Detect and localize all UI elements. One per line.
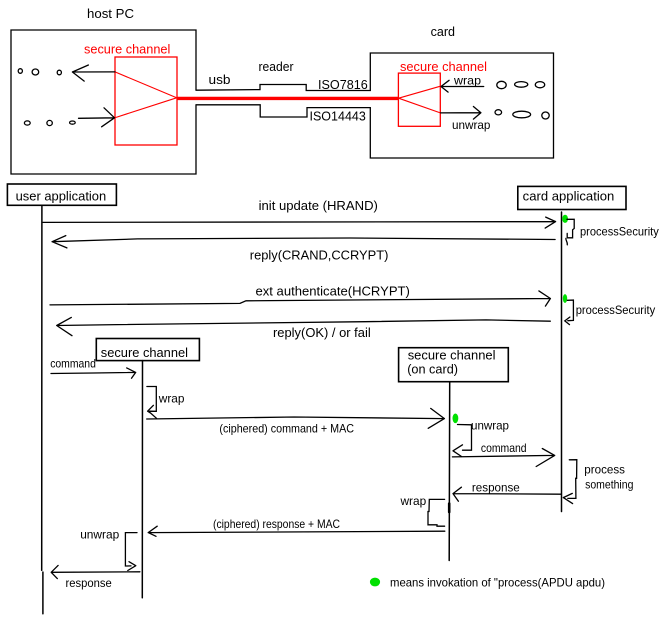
green dot processSecurity 1 bbox=[562, 215, 568, 223]
green dot processSecurity 2 bbox=[563, 294, 567, 303]
svg-text:secure channel: secure channel bbox=[101, 345, 188, 360]
user application box bbox=[7, 184, 116, 205]
arrow to host dots bbox=[72, 65, 115, 81]
svg-text:response: response bbox=[472, 481, 520, 495]
init update arrow bbox=[43, 217, 556, 228]
cable bottom line with reader notch bbox=[196, 105, 370, 117]
legend green dot bbox=[370, 578, 380, 587]
lifeline thick segment bbox=[448, 504, 451, 513]
svg-text:init update (HRAND): init update (HRAND) bbox=[259, 198, 378, 213]
ciphered response arrow bbox=[148, 526, 445, 536]
svg-text:card application: card application bbox=[523, 189, 615, 204]
process something bracket bbox=[563, 460, 577, 504]
dots card bottom row bbox=[495, 110, 502, 115]
unwrap self-call (left) bbox=[125, 533, 137, 571]
self-call bracket 2 bbox=[565, 300, 574, 325]
svg-text:process: process bbox=[584, 463, 625, 477]
svg-text:wrap: wrap bbox=[158, 392, 185, 406]
svg-text:(ciphered) response + MAC: (ciphered) response + MAC bbox=[213, 517, 340, 531]
reply(OK) arrow bbox=[57, 317, 551, 335]
dots host bottom row bbox=[24, 121, 30, 125]
svg-text:command: command bbox=[50, 357, 96, 371]
response arrow (card) bbox=[453, 487, 561, 501]
svg-text:processSecurity: processSecurity bbox=[580, 225, 659, 239]
svg-text:processSecurity: processSecurity bbox=[576, 303, 656, 317]
secure channel (on card) box bbox=[399, 348, 509, 382]
svg-text:secure channel: secure channel bbox=[400, 59, 487, 74]
svg-text:reader: reader bbox=[259, 59, 295, 74]
dots host top row bbox=[18, 69, 22, 74]
ext authenticate arrow bbox=[50, 291, 550, 306]
svg-text:ext authenticate(HCRYPT): ext authenticate(HCRYPT) bbox=[256, 284, 410, 299]
card box bbox=[370, 53, 553, 158]
command arrow (left) bbox=[51, 368, 136, 378]
svg-text:reply(CRAND,CCRYPT): reply(CRAND,CCRYPT) bbox=[250, 247, 389, 262]
wrap self-call (secure channel) bbox=[147, 387, 157, 419]
ciphered command arrow bbox=[147, 408, 445, 428]
svg-text:secure channel: secure channel bbox=[408, 348, 496, 363]
cable top line with reader bump bbox=[196, 85, 370, 91]
svg-text:wrap: wrap bbox=[453, 73, 481, 87]
svg-text:response: response bbox=[66, 576, 112, 590]
thick red channel line bbox=[177, 97, 399, 100]
svg-text:reply(OK) / or fail: reply(OK) / or fail bbox=[273, 325, 371, 340]
secure channel box (host, red) bbox=[115, 57, 177, 145]
self-call hook 1 bbox=[566, 219, 574, 245]
svg-text:(ciphered) command + MAC: (ciphered) command + MAC bbox=[219, 421, 354, 435]
svg-text:ISO7816: ISO7816 bbox=[318, 77, 368, 92]
secure channel box (seq) bbox=[96, 339, 199, 361]
wrap self-call (on card) bbox=[428, 499, 445, 526]
command arrow (to card app) bbox=[452, 449, 554, 467]
response arrow (left) bbox=[51, 565, 140, 578]
secure channel lifeline bbox=[141, 361, 143, 598]
wrap arrow (card) bbox=[441, 80, 484, 92]
svg-text:ISO14443: ISO14443 bbox=[310, 109, 366, 124]
svg-text:wrap: wrap bbox=[400, 494, 427, 508]
unwrap self-call (on card) bbox=[453, 425, 472, 457]
svg-text:means invokation of "process(A: means invokation of "process(APDU apdu) bbox=[390, 576, 605, 590]
card application lifeline bbox=[561, 212, 563, 512]
dots card top row bbox=[497, 81, 506, 88]
svg-text:usb: usb bbox=[209, 72, 231, 87]
svg-text:unwrap: unwrap bbox=[452, 118, 491, 132]
svg-text:command: command bbox=[481, 441, 527, 455]
host PC box bbox=[11, 30, 196, 174]
card application box bbox=[518, 186, 626, 209]
svg-text:something: something bbox=[585, 478, 633, 492]
svg-text:user application: user application bbox=[16, 189, 107, 204]
green dot unwrap bbox=[453, 414, 459, 424]
unwrap arrow (card) bbox=[441, 107, 481, 120]
funnel lines (host, red) bbox=[115, 72, 176, 118]
svg-text:card: card bbox=[431, 24, 455, 39]
arrow into host secure channel bbox=[79, 108, 115, 127]
svg-text:unwrap: unwrap bbox=[80, 528, 119, 542]
svg-text:unwrap: unwrap bbox=[471, 419, 509, 433]
svg-text:(on card): (on card) bbox=[407, 362, 458, 377]
reply(CRAND,CCRYPT) arrow bbox=[52, 236, 555, 248]
svg-text:host PC: host PC bbox=[87, 6, 134, 21]
user application lifeline bbox=[42, 205, 43, 613]
secure channel (on card) lifeline bbox=[448, 382, 451, 561]
funnel lines (card, red) bbox=[399, 86, 441, 113]
secure channel box (card, red) bbox=[398, 73, 440, 126]
svg-text:secure channel: secure channel bbox=[84, 42, 170, 57]
